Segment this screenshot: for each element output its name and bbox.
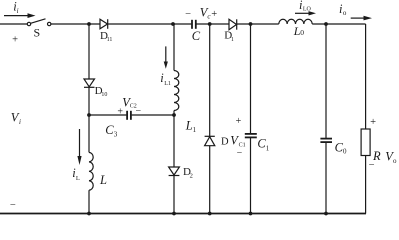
junction dot (x=326 bottom) xyxy=(324,212,328,216)
rail x=89: wire node A down to D10 xyxy=(88,24,90,79)
svg-text:−: − xyxy=(10,200,16,211)
svg-text:3: 3 xyxy=(114,131,118,139)
svg-text:+: + xyxy=(236,116,242,127)
diode D10 xyxy=(84,79,95,87)
svg-text:1: 1 xyxy=(231,37,234,43)
rail x=174: wire node B down to L1 xyxy=(173,24,175,71)
diode D11 xyxy=(100,19,108,29)
svg-text:i: i xyxy=(17,7,19,15)
wire C0 to bottom rail xyxy=(325,142,327,213)
svg-text:2: 2 xyxy=(190,173,193,180)
svg-text:11: 11 xyxy=(107,37,113,43)
inductor L xyxy=(89,152,93,190)
svg-text:LO: LO xyxy=(303,6,312,12)
wire D2 to bottom rail xyxy=(173,176,175,214)
inductor L1 xyxy=(174,71,179,111)
current arrow i_o xyxy=(351,16,372,21)
wire C1 to bottom rail xyxy=(250,138,252,214)
current arrow i_L xyxy=(77,129,81,165)
switch S xyxy=(27,19,51,26)
svg-text:−: − xyxy=(185,9,191,20)
svg-text:+: + xyxy=(370,117,376,128)
node E junction dot (x=326 top) xyxy=(324,22,328,26)
inductor L0 xyxy=(279,19,312,24)
svg-text:L: L xyxy=(99,173,107,187)
svg-text:−: − xyxy=(237,148,243,159)
wire capacitor C to node C xyxy=(196,23,229,25)
diode D1 xyxy=(229,19,237,29)
node A junction dot (x=89 top) xyxy=(87,22,91,26)
rail x=209.7: wire node C down to diode D xyxy=(209,24,211,136)
wire L1 to D2 xyxy=(173,111,175,168)
wire top-left from Vi+ terminal to switch xyxy=(0,23,27,25)
svg-text:L: L xyxy=(76,175,80,182)
junction dot (x=174 bottom) xyxy=(172,212,176,216)
svg-text:D: D xyxy=(221,137,229,148)
svg-text:L1: L1 xyxy=(164,81,171,87)
capacitor C1 xyxy=(245,134,257,138)
node B junction dot (x=173 top) xyxy=(171,22,175,26)
wire right rail upper (corner down to resistor R) xyxy=(365,24,367,129)
rail x=250.5: wire node D down to capacitor C1 xyxy=(250,24,252,134)
diode D2 xyxy=(169,167,180,176)
svg-text:o: o xyxy=(393,157,397,165)
current arrow i_L1 xyxy=(164,46,168,68)
svg-text:1: 1 xyxy=(193,126,197,134)
current arrow i_i xyxy=(4,13,36,18)
bottom wire (negative rail) xyxy=(0,213,366,215)
junction dot (x=209.7 bottom) xyxy=(208,212,212,216)
wire right rail lower (resistor R to bottom corner) xyxy=(365,156,367,214)
rail x=326: wire node E down to capacitor C0 xyxy=(325,24,327,138)
svg-text:+: + xyxy=(12,35,18,46)
node D junction dot (x=250.5 top) xyxy=(249,22,253,26)
svg-text:o: o xyxy=(343,9,347,17)
wire diode D to bottom rail xyxy=(209,146,211,214)
wire D11 to capacitor C xyxy=(108,23,192,25)
node G junction dot (x=174 y=115) xyxy=(172,113,176,117)
svg-text:C: C xyxy=(192,29,201,43)
svg-text:L: L xyxy=(185,119,193,133)
node C junction dot (x=209.7 top) xyxy=(208,22,212,26)
C3 row wire left segment xyxy=(89,114,126,116)
svg-text:S: S xyxy=(34,26,41,40)
resistor R xyxy=(361,129,370,156)
junction dot (x=89 bottom) xyxy=(87,212,91,216)
svg-text:0: 0 xyxy=(300,28,304,37)
wire switch to node A xyxy=(51,23,100,25)
wire L0 to node E corner xyxy=(312,23,365,25)
wire L to bottom rail xyxy=(88,190,90,213)
C3 row wire right segment xyxy=(132,114,174,116)
svg-text:−: − xyxy=(369,160,375,171)
svg-text:i: i xyxy=(19,118,21,126)
wire D10 to node F xyxy=(88,87,90,152)
node F junction dot (x=89 y=115) xyxy=(87,113,91,117)
svg-text:10: 10 xyxy=(101,92,107,98)
diode D xyxy=(205,136,215,145)
svg-text:1: 1 xyxy=(266,145,270,153)
current arrow i_LO xyxy=(295,11,316,15)
capacitor C3 xyxy=(127,111,131,120)
capacitor C0 xyxy=(320,139,332,143)
junction dot (x=250.5 bottom) xyxy=(249,212,253,216)
svg-text:0: 0 xyxy=(343,148,347,156)
svg-text:+: + xyxy=(211,9,217,20)
wire D1 to inductor L0 xyxy=(237,23,279,25)
capacitor C xyxy=(192,20,196,29)
